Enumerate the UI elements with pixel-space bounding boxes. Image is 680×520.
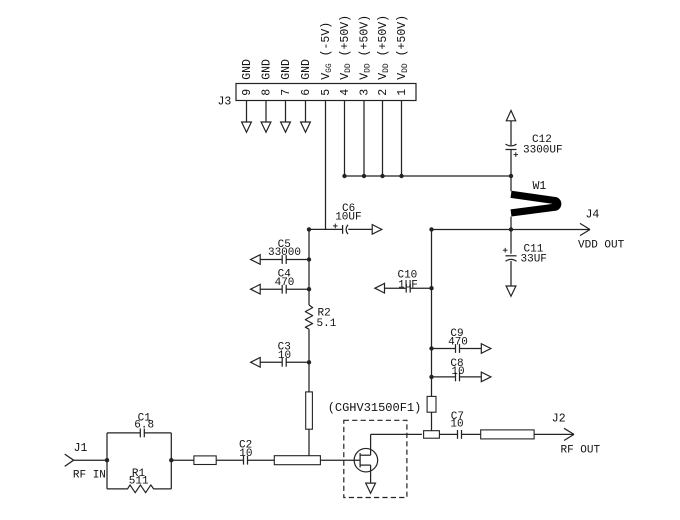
svg-text:GND: GND	[261, 59, 274, 80]
svg-text:10: 10	[239, 448, 252, 460]
svg-text:470: 470	[448, 336, 468, 348]
svg-text:GND: GND	[300, 59, 313, 80]
svg-text:10: 10	[451, 366, 464, 378]
svg-text:6: 6	[300, 89, 313, 96]
svg-text:3300UF: 3300UF	[523, 144, 563, 156]
svg-text:W1: W1	[533, 180, 547, 193]
svg-text:511: 511	[129, 476, 149, 488]
svg-text:3: 3	[359, 89, 372, 96]
svg-text:470: 470	[275, 277, 295, 289]
svg-text:J3: J3	[218, 95, 232, 108]
svg-text:10UF: 10UF	[335, 211, 361, 223]
svg-text:J4: J4	[586, 208, 600, 221]
svg-text:(CGHV31500F1): (CGHV31500F1)	[328, 401, 422, 415]
svg-text:33000: 33000	[268, 247, 301, 259]
svg-text:10: 10	[278, 350, 291, 362]
svg-text:GND: GND	[280, 59, 293, 80]
svg-text:RF OUT: RF OUT	[561, 445, 601, 457]
svg-text:J2: J2	[552, 412, 566, 425]
svg-text:33UF: 33UF	[521, 253, 547, 265]
svg-text:7: 7	[280, 89, 293, 96]
svg-text:4: 4	[339, 89, 352, 96]
svg-text:GND: GND	[241, 59, 254, 80]
svg-text:6.8: 6.8	[134, 420, 154, 432]
svg-text:5.1: 5.1	[317, 318, 337, 330]
svg-text:RF IN: RF IN	[73, 469, 106, 481]
svg-text:9: 9	[241, 89, 254, 96]
svg-text:2: 2	[377, 89, 390, 96]
svg-text:1: 1	[396, 89, 409, 96]
svg-text:5: 5	[320, 89, 333, 96]
svg-text:VDD OUT: VDD OUT	[578, 239, 625, 251]
svg-text:1UF: 1UF	[398, 279, 418, 291]
svg-text:J1: J1	[74, 442, 88, 455]
svg-text:8: 8	[261, 89, 274, 96]
svg-text:10: 10	[450, 419, 463, 431]
